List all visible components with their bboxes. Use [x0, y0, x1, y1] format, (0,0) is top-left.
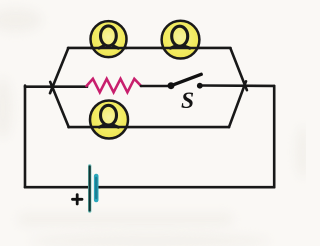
battery + sign — [73, 195, 83, 204]
wire bottom rail left (to battery) — [25, 186, 89, 189]
wire left vertical — [24, 86, 27, 188]
battery long plate (+) — [88, 166, 91, 211]
wire left diagonal up to top rail — [50, 48, 68, 93]
wire top rail — [68, 47, 231, 50]
wire left diagonal down to inner rail — [50, 82, 69, 127]
lamp 2 (top right bulb) — [162, 21, 200, 59]
wire right diagonal from inner rail to junction — [229, 81, 246, 127]
wire right vertical — [273, 86, 276, 187]
battery cell — [73, 166, 97, 211]
wire middle-left horizontal — [25, 85, 87, 88]
resistor R (magenta zigzag) — [87, 79, 142, 93]
wire right diagonal from top rail to junction — [231, 49, 247, 91]
svg-text:S: S — [181, 88, 194, 114]
wire middle-right horizontal (switch to right corner) — [202, 84, 275, 87]
wire resistor to switch — [141, 85, 170, 88]
lamp 3 (lower bulb on inner rail) — [90, 101, 128, 139]
wire bottom rail right (battery to right corner) — [98, 186, 275, 189]
wire inner bottom rail — [69, 126, 230, 129]
lamp 1 (top left bulb) — [90, 21, 127, 57]
battery short plate (-) — [94, 176, 99, 200]
switch S — [168, 74, 203, 89]
